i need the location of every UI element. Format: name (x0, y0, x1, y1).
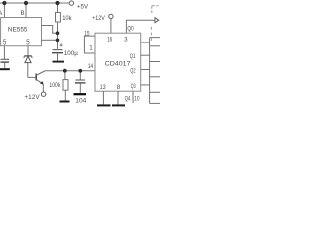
svg-text:14: 14 (88, 63, 94, 70)
svg-text:10: 10 (134, 96, 140, 103)
svg-text:8: 8 (117, 84, 121, 91)
svg-text:104: 104 (75, 97, 87, 104)
svg-text:B: B (21, 10, 25, 17)
svg-text:+12V: +12V (92, 15, 105, 22)
svg-text:Q2: Q2 (130, 67, 136, 74)
svg-text:Q4: Q4 (125, 96, 131, 103)
svg-text:15: 15 (84, 32, 90, 38)
svg-text:13: 13 (100, 84, 106, 91)
svg-text:CD4017: CD4017 (105, 60, 131, 67)
svg-text:1: 1 (89, 44, 93, 51)
svg-text:16: 16 (107, 38, 112, 44)
svg-text:+12V: +12V (24, 94, 40, 101)
svg-text:100µ: 100µ (64, 50, 78, 57)
svg-text:100k: 100k (49, 82, 61, 89)
svg-text:Q0: Q0 (127, 25, 134, 32)
svg-text:Q1: Q1 (130, 53, 136, 60)
svg-text:10k: 10k (62, 15, 72, 22)
svg-text:5: 5 (26, 37, 29, 46)
svg-text:+5V: +5V (77, 3, 89, 10)
svg-text:5: 5 (3, 37, 6, 46)
svg-text:NE555: NE555 (8, 26, 28, 33)
svg-text:Q3: Q3 (131, 83, 136, 90)
